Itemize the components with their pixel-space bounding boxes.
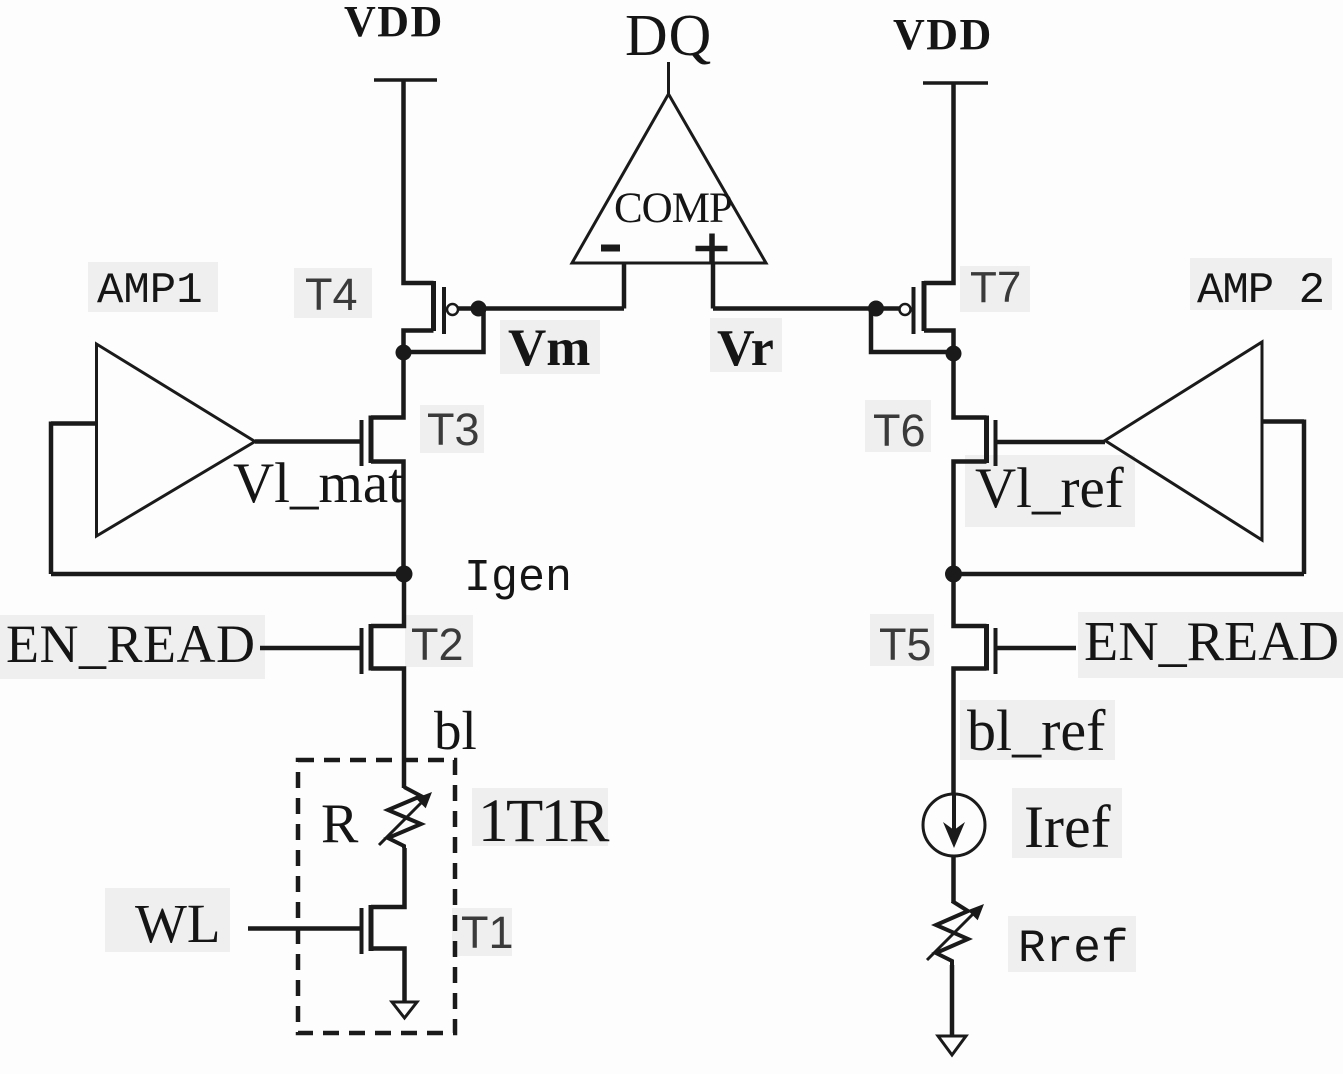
junction dot T4 gate node [471,301,487,317]
svg-text:AMP1: AMP1 [97,266,203,316]
wire COMP plus to T7 gate [713,306,876,311]
svg-text:VDD: VDD [344,0,444,46]
transistor T5 (NMOS) [954,574,996,794]
svg-text:T3: T3 [427,404,480,455]
junction dot node Vr [946,346,962,362]
wire VDD right rail to T7 source [924,83,954,283]
svg-text:1T1R: 1T1R [478,788,610,855]
pin minus of COMP [601,245,620,252]
wire AMP1 output to T3 gate [255,439,360,444]
svg-text:bl_ref: bl_ref [967,698,1106,763]
transistor T6 (NMOS) [954,416,996,575]
wire T4 gate to COMP minus input [479,306,625,311]
wire Vm node to T3 drain [371,353,404,418]
wire VDD left rail to T4 source [404,80,434,283]
op-amp AMP2 triangle [1105,342,1262,540]
memristor Rref arrow [927,904,984,960]
wire COMP plus input stub [711,263,716,309]
wire T4 gate-to-drain loop [404,309,484,353]
svg-text:VDD: VDD [893,10,993,59]
pin plus of COMP [696,234,728,264]
svg-text:T5: T5 [879,619,932,670]
svg-text:Vm: Vm [508,319,590,377]
wire T5 gate to EN_READ [998,646,1077,651]
svg-text:Vl_mat: Vl_mat [233,452,404,515]
wire AMP1 feedback vertical [49,422,54,575]
wire AMP2 feedback vertical [1302,420,1307,575]
wire Vr node to T6 drain [954,354,987,418]
junction dot right branch node [945,566,962,583]
wire AMP1 feedback to Igen node [51,572,404,577]
wire Rref to ground [950,965,955,1037]
memristor Rref zigzag [936,901,968,965]
wire COMP minus input stub [622,263,627,309]
svg-text:T1: T1 [461,907,514,958]
svg-text:Igen: Igen [464,553,572,604]
transistor T7 (PMOS) [900,281,954,354]
wire WL to T1 gate [248,926,360,931]
svg-text:T7: T7 [970,263,1021,312]
svg-text:bl: bl [434,700,477,761]
op-amp AMP1 triangle [97,344,256,536]
current source Iref circle [923,794,985,856]
transistor T2 (NMOS) [362,574,405,788]
svg-text:Iref: Iref [1024,794,1111,860]
wire T4 gate stub [458,306,479,311]
svg-text:Vr: Vr [717,320,774,377]
transistor T1 (NMOS) [362,905,405,1003]
junction dot node Igen [396,566,413,583]
svg-text:Rref: Rref [1018,923,1128,975]
ground symbol left [392,1002,417,1018]
wire AMP2 feedback to bl_ref branch node [954,572,1305,577]
dashed box 1T1R cell [298,760,455,1033]
svg-text:EN_READ: EN_READ [6,614,255,674]
junction dot node Vm [396,345,412,361]
memristor R arrow [379,792,432,845]
power VDD right rail bar [923,81,988,85]
wire AMP2 feedback input stub [1262,419,1304,424]
wire T7 gate stub [876,306,900,311]
svg-text:AMP 2: AMP 2 [1197,266,1324,316]
transistor T4 (PMOS) [404,281,459,353]
wire T7 gate-to-drain loop [871,309,953,353]
wire AMP1 feedback input stub [51,421,97,426]
op-amp COMP triangle [572,94,766,263]
svg-text:WL: WL [135,893,221,954]
power VDD left rail bar [374,78,437,82]
svg-text:T2: T2 [411,619,464,670]
wire DQ output stub [667,62,670,96]
svg-text:T6: T6 [873,405,926,456]
svg-text:COMP: COMP [614,185,732,232]
memristor R zigzag [388,787,421,848]
wire AMP2 output to T6 gate [998,440,1106,445]
junction dot T7 gate node [868,301,884,317]
svg-text:Vl_ref: Vl_ref [975,457,1124,520]
ground symbol right [938,1036,966,1055]
svg-text:DQ: DQ [625,2,712,68]
svg-text:R: R [321,793,359,855]
svg-text:EN_READ: EN_READ [1084,611,1339,673]
wire R to T1 drain [371,848,405,907]
transistor T3 (NMOS) [362,416,404,575]
current source Iref arrow [943,794,965,848]
svg-text:T4: T4 [305,269,358,320]
wire EN_READ to T2 gate [260,646,360,651]
wire Iref to Rref [951,856,956,903]
